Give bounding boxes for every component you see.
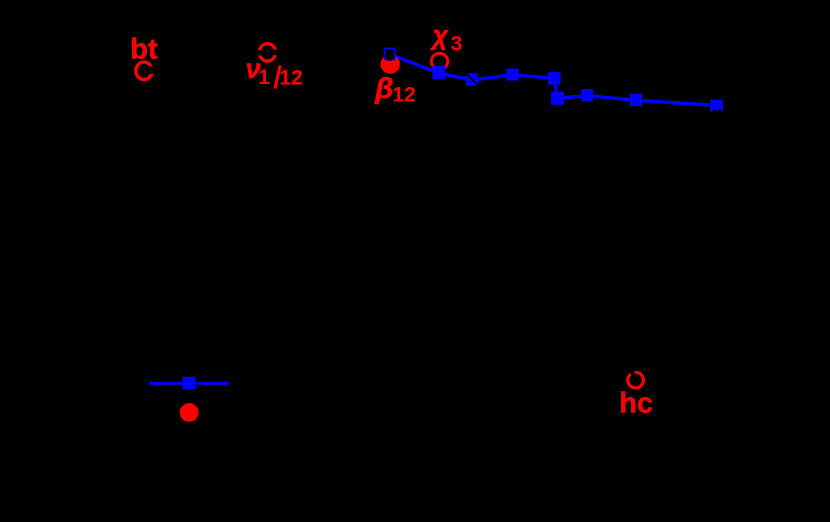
start cluster: black filled circle xyxy=(385,52,394,61)
svg-text:hc: hc xyxy=(619,388,653,420)
legend: blue line sample xyxy=(149,382,228,385)
wire: blue eigenvalue line xyxy=(390,54,717,105)
svg-text:3: 3 xyxy=(451,33,463,56)
marker: red open circle (hc level) xyxy=(628,369,644,388)
label chi_3 xyxy=(430,21,463,56)
legend: blue square marker xyxy=(183,377,196,390)
label beta_12 xyxy=(374,73,415,106)
start cluster: blue open square marker xyxy=(385,48,395,59)
legend: red filled circle marker xyxy=(180,403,199,422)
svg-text:χ: χ xyxy=(430,21,450,51)
marker: red open circle (chi level) xyxy=(432,53,448,69)
marker: blue filled square 2 (with black diagonal) xyxy=(466,73,478,85)
marker: blue filled square 3 xyxy=(507,69,519,81)
marker: blue filled square 6 xyxy=(581,89,593,101)
start cluster: red filled circle xyxy=(381,54,400,73)
marker: blue filled square 4 xyxy=(548,72,561,85)
svg-text:12: 12 xyxy=(279,66,302,89)
label nu_1/12 xyxy=(246,54,303,90)
svg-text:1: 1 xyxy=(258,66,270,89)
marker: blue filled square 1 xyxy=(433,66,446,79)
marker: red open circle (bt level) xyxy=(136,62,155,79)
svg-text:12: 12 xyxy=(392,84,415,107)
marker: blue filled square 8 (with bottom notches) xyxy=(710,100,723,113)
marker: blue filled square 5 xyxy=(551,92,564,105)
marker: red open circle (nu level) xyxy=(257,44,278,62)
svg-text:β: β xyxy=(374,73,393,105)
marker: blue filled square 7 xyxy=(630,94,642,106)
